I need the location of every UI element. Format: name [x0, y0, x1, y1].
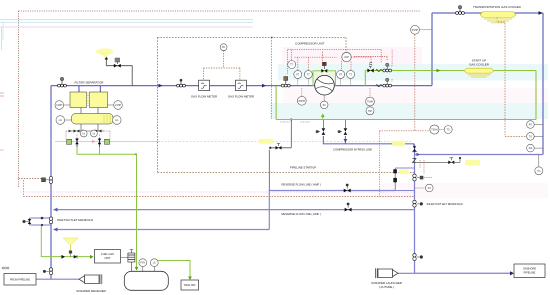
LSHH left — [55, 101, 64, 110]
bypass double-block loop — [395, 168, 414, 191]
manifold right lower valve — [413, 254, 423, 261]
blowdown valve assy right square — [105, 139, 110, 144]
signal dashed to pig valve — [19, 178, 43, 180]
scraper launcher tie-in — [398, 272, 415, 274]
cyan signal line top — [0, 21, 253, 23]
green drain line from filter — [77, 147, 137, 154]
take off box — [181, 280, 199, 290]
drain valve row left — [74, 130, 80, 133]
startup takeoff gate valve — [276, 146, 282, 150]
PSHH tap line — [419, 29, 432, 31]
scraper launcher — [375, 268, 398, 278]
gas flow meter 1 — [199, 80, 210, 90]
loop bowtie valve — [28, 219, 32, 224]
green arrow on startup line — [437, 69, 441, 73]
metering skid dashed box left — [157, 37, 159, 172]
PT suction — [294, 70, 302, 78]
TG right 2 — [534, 135, 543, 137]
blowdown valve left stem — [76, 138, 78, 147]
dashed to PSHH TSHH below line — [302, 88, 370, 101]
green arrow into fuel gas unit — [90, 255, 94, 259]
right return line to manifold — [415, 154, 544, 156]
reverse upper branch valve — [344, 184, 351, 193]
manifold gate on riser — [49, 217, 52, 224]
highlight band cyan upper — [278, 64, 548, 81]
main line arrow 2 — [262, 84, 266, 88]
green startup branch down from main — [275, 86, 277, 120]
vent valve — [114, 64, 121, 68]
ZIA right 3 — [534, 147, 543, 149]
check valve tick — [412, 151, 417, 153]
LSHH left tap — [64, 104, 71, 106]
PSHH suction — [297, 96, 306, 105]
green arrow up on recycle — [321, 114, 325, 118]
TT suction — [288, 61, 296, 69]
pink signal line top 1 — [0, 19, 253, 21]
svg-text:COMPRESSOR BYPASS LINE: COMPRESSOR BYPASS LINE — [333, 147, 372, 151]
fuel gas funnel highlight — [63, 238, 78, 252]
from pipeline box — [4, 274, 36, 286]
TSHH mid right — [430, 125, 439, 134]
green line expander squiggle — [376, 69, 382, 71]
cyan line at drain header — [55, 140, 160, 142]
pink dashed line at drain header — [60, 140, 412, 142]
main line arrow 1 — [159, 84, 163, 88]
left edge pink stub — [1, 27, 3, 50]
svg-text:( FUTURE ): ( FUTURE ) — [379, 285, 394, 289]
vessel downcomers — [81, 108, 98, 114]
LSHH right tap — [108, 104, 114, 106]
right vent line — [416, 161, 452, 163]
main gas line horizontal — [51, 85, 432, 87]
svg-text:GAS FLOW METER: GAS FLOW METER — [228, 95, 254, 99]
pink dashed line lower — [20, 191, 414, 193]
PSHH top right — [411, 25, 420, 34]
svg-text:PC: PC — [222, 47, 226, 49]
filter separator lower barrel — [72, 114, 114, 125]
fuel check valve 1 — [62, 255, 65, 259]
green recycle line lower — [276, 119, 536, 121]
drain stubs below barrel — [81, 124, 98, 131]
blowdown valve assy left square — [67, 139, 72, 144]
right vent valve actuator — [450, 158, 454, 161]
PC controller — [220, 44, 227, 51]
small valve on loop top — [41, 217, 44, 220]
svg-text:TRANSPORTATION GAS COOLER: TRANSPORTATION GAS COOLER — [473, 5, 522, 9]
svg-text:LG: LG — [59, 120, 62, 122]
riser gate valve at 180 — [49, 177, 52, 184]
UCP — [342, 52, 351, 61]
svg-text:PIPELINE: PIPELINE — [524, 270, 536, 274]
green drain riser to fuel tank — [136, 154, 138, 268]
fuel gas pcv small — [70, 252, 72, 257]
vent valve actuator — [116, 62, 118, 64]
svg-text:PIPELINE STARTUP: PIPELINE STARTUP — [290, 166, 316, 170]
manifold riser gate valve — [413, 174, 424, 181]
battery limit dashed border left — [18, 11, 20, 188]
dashed from transportation cooler down — [497, 18, 526, 137]
drain valve row left2 — [83, 130, 86, 133]
startup valve on green — [383, 63, 392, 72]
loop valves double block — [393, 169, 397, 173]
svg-text:FROM PIPELINE: FROM PIPELINE — [10, 278, 30, 282]
right downcomer — [542, 13, 544, 155]
startup takeoff yellow highlight — [259, 139, 274, 144]
svg-text:REVERSE FLOW LINE ( HMF ): REVERSE FLOW LINE ( HMF ) — [282, 212, 322, 216]
svg-text:LG: LG — [153, 263, 156, 265]
loop stub dot — [26, 221, 30, 223]
highlight band pink upper — [282, 47, 422, 64]
filter separator upper shell B — [90, 92, 108, 108]
battery limit dashed border top — [19, 10, 422, 12]
reverse line 1 valve — [345, 203, 352, 212]
svg-text:FUEL GAS: FUEL GAS — [101, 252, 114, 256]
drain line horizontal — [69, 130, 105, 132]
arrow reverse flow 2 — [54, 228, 58, 232]
bypass valve 2 under green — [338, 120, 348, 135]
dashed rail 2 compressor — [295, 50, 393, 82]
transportation gas cooler — [480, 12, 516, 23]
right manifold vertical — [414, 144, 416, 273]
fuel box to PCV line — [121, 257, 129, 259]
LCV circle 2 — [91, 130, 98, 137]
LSHH right — [114, 101, 123, 110]
svg-text:TAKE OFF: TAKE OFF — [184, 284, 197, 287]
onshore pipeline box — [514, 264, 545, 278]
bottom left small connector — [2, 267, 4, 269]
svg-text:TG: TG — [529, 136, 532, 138]
svg-text:FO: FO — [428, 188, 431, 190]
pig line instrument square — [42, 178, 46, 182]
fuel tank LG 2 — [153, 267, 155, 272]
svg-text:LG: LG — [115, 120, 118, 122]
green drain node — [135, 153, 137, 155]
compressor bypass line — [323, 136, 413, 146]
SC compressor — [323, 95, 325, 101]
dashed PC to meters — [203, 51, 240, 81]
TT suction 2 — [304, 70, 312, 78]
svg-text:10-SU-002: 10-SU-002 — [300, 122, 311, 124]
startup tie vertical black — [269, 120, 291, 191]
metering inlet valve — [177, 79, 186, 87]
svg-text:ZIA: ZIA — [529, 147, 533, 150]
svg-text:SCRAPER RECEIVER: SCRAPER RECEIVER — [76, 289, 106, 293]
compressor internals — [316, 79, 334, 91]
arrow bypass drop — [344, 139, 348, 143]
reverse flow line 1 — [54, 209, 415, 211]
dashed UCP to antisurge rail — [351, 57, 387, 63]
svg-text:TSHH: TSHH — [367, 102, 374, 104]
metering skid dashed box bottom — [158, 172, 414, 174]
manifold right valve — [413, 200, 423, 207]
blowdown valve left — [75, 139, 79, 145]
gas flow meter 2 — [235, 80, 246, 90]
recycle control valve — [321, 69, 327, 73]
highlight band pink lower right — [380, 183, 548, 198]
metering skid dashed box top — [158, 36, 346, 38]
TT discharge — [347, 70, 355, 78]
Z jump on manifold riser — [413, 159, 417, 163]
svg-text:UCP: UCP — [344, 57, 349, 59]
drain dashed drops — [66, 131, 110, 139]
TG mid right — [444, 126, 452, 134]
dashed near right manifold valve — [420, 160, 432, 178]
startup gas cooler — [464, 68, 494, 77]
compressor body — [315, 75, 335, 95]
long dashed line lower — [24, 180, 415, 197]
inlet ESD valve — [58, 77, 67, 87]
reverse flow line 2 — [54, 229, 270, 231]
svg-text:LSHH: LSHH — [56, 105, 62, 107]
bypass valve 1 under green — [316, 120, 326, 135]
svg-text:GAS COOLER: GAS COOLER — [469, 63, 490, 67]
LG left tap — [65, 119, 72, 121]
svg-text:INLET/OUTLET MANIFOLD: INLET/OUTLET MANIFOLD — [427, 202, 463, 206]
dashed node at metering top — [271, 37, 273, 39]
blowdown valve right — [98, 139, 102, 145]
bypass valve2 drop — [344, 136, 346, 144]
station inlet riser left — [50, 86, 52, 280]
LG right — [113, 116, 122, 125]
top line arrow — [539, 11, 543, 15]
dashed corner to TSHH circles right — [379, 131, 429, 197]
startup tie end dot — [269, 147, 271, 149]
svg-text:SC: SC — [323, 105, 327, 107]
dashed drop from metering top to UCP — [345, 37, 347, 52]
TSHH discharge — [366, 97, 375, 106]
from pipeline tie line — [36, 278, 79, 280]
LG left — [56, 116, 65, 125]
fuel gas unit box — [95, 250, 121, 264]
LCV circle 1 — [80, 130, 87, 137]
dashed vertical from PSHH top right — [414, 35, 416, 131]
dashed UCP drops — [323, 52, 351, 71]
svg-text:LV: LV — [82, 134, 85, 136]
svg-text:INLET/OUTLET MANIFOLD: INLET/OUTLET MANIFOLD — [57, 218, 93, 222]
suction valve — [281, 77, 290, 88]
green recycle riser right — [535, 71, 537, 120]
right vent end — [452, 159, 460, 163]
right vent valve — [448, 161, 454, 165]
fuel gas tank — [124, 271, 168, 290]
antisurge valve on green — [367, 69, 373, 73]
svg-text:TSH: TSH — [368, 111, 373, 113]
svg-text:10-SU-001: 10-SU-001 — [280, 122, 291, 124]
reverse flow riser x269 — [268, 191, 270, 230]
discharge ESD valve — [383, 78, 392, 87]
blowdown valve right stem — [99, 138, 101, 147]
left edge offpage marks — [0, 93, 4, 96]
loop yellow highlight — [399, 169, 409, 174]
green fuel gas branch from manifold — [41, 225, 90, 257]
arrow on manifold junction — [417, 153, 421, 157]
arrow reverse flow 1 — [54, 208, 58, 212]
green arrow into takeoff — [188, 277, 192, 281]
svg-text:FILTER SEPARATOR: FILTER SEPARATOR — [75, 81, 105, 85]
green takeoff line — [157, 261, 190, 279]
right vent yellow label — [465, 160, 480, 166]
recycle valve actuator — [323, 66, 325, 69]
svg-text:TSHH: TSHH — [431, 130, 438, 132]
TG below return line — [538, 155, 540, 167]
svg-text:LSHH: LSHH — [115, 105, 121, 107]
riser lower gate valve — [43, 268, 53, 275]
filter vent riser — [106, 59, 132, 86]
filter separator inlet stubs — [79, 86, 100, 92]
FO circle — [415, 187, 425, 189]
pink signal line top 2 — [0, 26, 253, 28]
dashed drop long at x271.5 — [271, 37, 273, 119]
fuel PCV regulator — [128, 250, 135, 272]
svg-text:REVERSE FLOW LINE ( HMF ): REVERSE FLOW LINE ( HMF ) — [282, 183, 322, 187]
arrow to onshore pipeline — [510, 271, 514, 275]
LG right tap — [112, 119, 115, 121]
transportation line top — [432, 12, 543, 14]
svg-text:UNIT: UNIT — [104, 256, 110, 260]
svg-text:TG: TG — [537, 171, 540, 173]
svg-text:LV: LV — [93, 134, 96, 136]
PT discharge — [337, 70, 345, 78]
drain valve row right — [96, 130, 102, 133]
svg-text:PG: PG — [529, 125, 533, 127]
filter separator upper shell A — [70, 92, 87, 108]
left edge cyan stub — [2, 22, 4, 40]
highlight band cyan lower — [270, 103, 548, 119]
reverse flow upper branch — [269, 190, 395, 192]
main gas riser to top — [431, 13, 433, 86]
compressor green enclosure — [313, 71, 336, 86]
transport cooler valve — [456, 5, 465, 14]
PG right 1 — [534, 124, 543, 126]
highlight band pink mid — [283, 88, 548, 103]
main line expander squiggle — [376, 85, 382, 87]
vent highlight — [96, 48, 114, 54]
svg-text:ONSHORE: ONSHORE — [523, 266, 536, 270]
TSH discharge — [366, 107, 374, 115]
green startup line upper — [365, 70, 536, 72]
vent arrow — [105, 56, 108, 60]
green arrow stub on recycle — [322, 114, 324, 120]
svg-text:PSV: PSV — [140, 263, 145, 265]
svg-text:PSHH: PSHH — [299, 101, 306, 103]
green branch up from main line — [364, 71, 366, 86]
TSHH-TG link — [439, 129, 444, 131]
fuel check valve 2 — [74, 255, 77, 259]
fuel tank PSV 1 — [142, 267, 144, 272]
pink arrow on drain header — [92, 140, 96, 144]
lower barrel hatch — [104, 115, 110, 124]
svg-text:TG: TG — [447, 130, 450, 132]
bypass line yellow highlight — [392, 141, 405, 147]
svg-text:COMPRESSOR UNIT: COMPRESSOR UNIT — [295, 42, 325, 46]
left manifold loop — [30, 218, 52, 225]
startup valve handle — [277, 144, 280, 146]
check valves on drop to junction — [413, 146, 416, 151]
antisurge spring actuator — [369, 62, 372, 68]
drain arrow left — [69, 130, 72, 132]
scraper receiver — [79, 274, 102, 284]
svg-text:PSHH: PSHH — [412, 30, 419, 32]
outlet line to onshore pipeline — [415, 272, 513, 274]
svg-text:GAS FLOW METER: GAS FLOW METER — [191, 95, 217, 99]
dashed compressor cluster top rail — [288, 50, 382, 74]
green arrow into tank — [135, 267, 139, 271]
filter internals hatch — [87, 93, 90, 106]
